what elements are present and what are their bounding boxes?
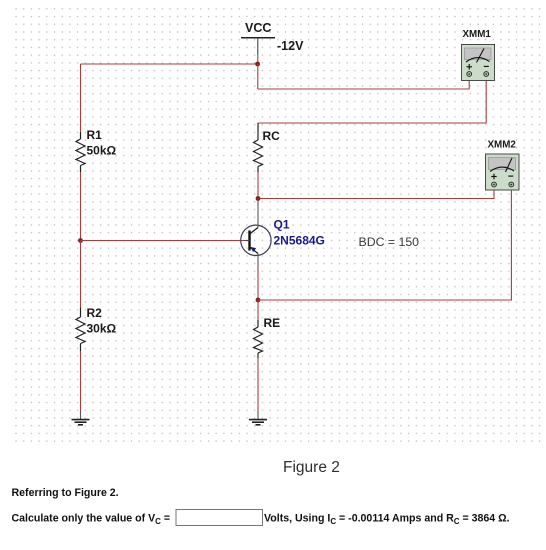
label R2 30kΩ (87, 306, 117, 336)
multimeter XMM1 (462, 29, 495, 81)
svg-text:-12V: -12V (277, 39, 304, 53)
node collector junction (256, 196, 261, 201)
label R1 50kΩ (87, 128, 117, 158)
svg-text:2N5684G: 2N5684G (274, 234, 325, 248)
wire VCC down to XMM1 row (257, 64, 259, 89)
wire RC bottom to collector node (257, 172, 259, 199)
svg-text:R1: R1 (87, 128, 103, 142)
wire R2 bottom to ground (80, 351, 82, 411)
label Q1 2N5684G (274, 218, 325, 248)
wire R1 bottom to base node (80, 172, 82, 241)
svg-text:Figure 2: Figure 2 (283, 459, 340, 476)
svg-text:XMM1: XMM1 (463, 29, 492, 40)
node VCC junction (255, 62, 260, 67)
ground center (249, 420, 267, 425)
resistor R1 (76, 132, 85, 172)
resistor RC (254, 123, 263, 172)
wire XMM1 minus terminal down to RC rail (485, 75, 487, 81)
multimeter XMM2 (486, 140, 520, 191)
svg-text:30kΩ: 30kΩ (87, 322, 117, 336)
transistor Q1 (241, 199, 271, 267)
svg-text:RC: RC (263, 129, 281, 143)
node base junction (78, 238, 83, 243)
wire base rail (81, 240, 245, 242)
svg-text:Referring to Figure 2.: Referring to Figure 2. (12, 487, 119, 499)
text Calculate line with input box (12, 513, 510, 527)
power symbol VCC (241, 21, 275, 55)
wire to XMM1 plus terminal (258, 81, 469, 90)
wire top rail y=64 to R1 (81, 63, 258, 65)
input box (176, 510, 263, 526)
wire emitter to node (257, 266, 259, 300)
svg-text:RE: RE (264, 316, 281, 330)
svg-text:R2: R2 (87, 306, 103, 320)
wire RE top (257, 300, 259, 320)
resistor R2 (76, 308, 85, 352)
wire R2 top (80, 241, 82, 308)
svg-text:Calculate only the value of VC: Calculate only the value of VC = (12, 513, 171, 527)
svg-text:VCC: VCC (245, 21, 271, 35)
svg-text:XMM2: XMM2 (488, 140, 517, 151)
wire RE bottom to ground (257, 358, 259, 411)
ground left (72, 420, 90, 425)
node emitter junction (256, 298, 261, 303)
svg-text:Volts, Using IC = -0.00114 Amp: Volts, Using IC = -0.00114 Amps and RC =… (264, 513, 510, 527)
wire emitter rail to XMM2 minus (258, 190, 511, 300)
wire R1 top drop (80, 64, 82, 132)
svg-text:Q1: Q1 (274, 218, 290, 232)
resistor RE (254, 320, 263, 358)
wire collector rail to XMM2 plus (258, 190, 494, 199)
wire VCC stub to node (257, 55, 259, 64)
svg-text:50kΩ: 50kΩ (87, 144, 117, 158)
svg-text:BDC = 150: BDC = 150 (359, 235, 420, 249)
